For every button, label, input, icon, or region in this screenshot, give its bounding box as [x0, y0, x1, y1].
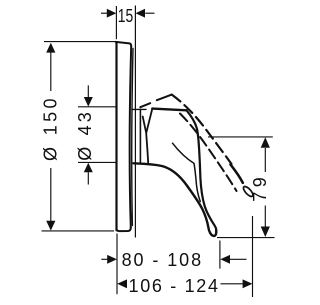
svg-text:Ø 150: Ø 150 [41, 99, 61, 162]
svg-text:106 - 124: 106 - 124 [129, 276, 219, 296]
svg-text:15: 15 [118, 6, 134, 26]
